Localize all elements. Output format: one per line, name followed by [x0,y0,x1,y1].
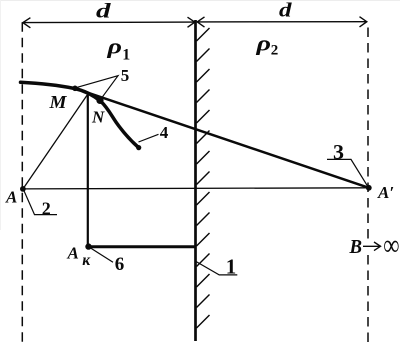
wire: vertical line P to Ak [87,94,89,247]
svg-text:3: 3 [333,140,344,164]
wire: thin line A to A' [23,188,369,189]
faint scan edge top [0,0,400,1]
leader for label 5 (fork to M and N) [76,76,119,100]
leader for label 2 with underline [23,189,57,214]
svg-text:2: 2 [271,43,279,59]
svg-text:ρ: ρ [106,33,122,58]
node N [96,97,103,104]
right dashed line at B [367,28,369,239]
svg-text:1: 1 [226,255,237,279]
svg-text:к: к [82,252,91,269]
line 3: thick straight line M to A' [75,88,369,188]
node A [20,186,26,192]
svg-text:4: 4 [160,123,169,142]
arrow B to infinity [363,242,381,251]
svg-text:M: M [48,92,67,112]
svg-text:d: d [96,0,111,22]
svg-text:A′: A′ [377,183,394,202]
svg-text:A: A [67,244,79,263]
svg-text:1: 1 [122,47,130,64]
node Ak [85,243,91,249]
svg-text:d: d [279,0,293,22]
node A' [366,185,372,191]
leader for label 6 [89,247,113,262]
boundary plane 1 [194,20,197,341]
leader for label 3 with underline [327,159,368,187]
svg-text:∞: ∞ [384,229,400,262]
svg-text:B: B [349,236,362,258]
svg-text:A: A [5,187,17,206]
faint scan edge left [0,0,1,230]
curve 4: equipotential arc [21,82,139,147]
right dimension line d [197,17,367,27]
boundary hatching [197,28,210,328]
wire: thick horizontal Ak to boundary [88,245,196,248]
left dashed equipotential line [21,22,23,342]
curve end blob [136,145,141,150]
wire: thin line A up to junction P [23,94,88,189]
node M [72,86,78,92]
leader for label 1 with underline [196,262,237,275]
svg-text:2: 2 [42,198,51,218]
svg-text:5: 5 [121,66,130,85]
svg-text:6: 6 [115,254,125,275]
left dimension line d [23,17,195,28]
svg-text:ρ: ρ [255,31,271,56]
leader for label 4 [139,134,159,142]
svg-text:N: N [91,108,105,127]
